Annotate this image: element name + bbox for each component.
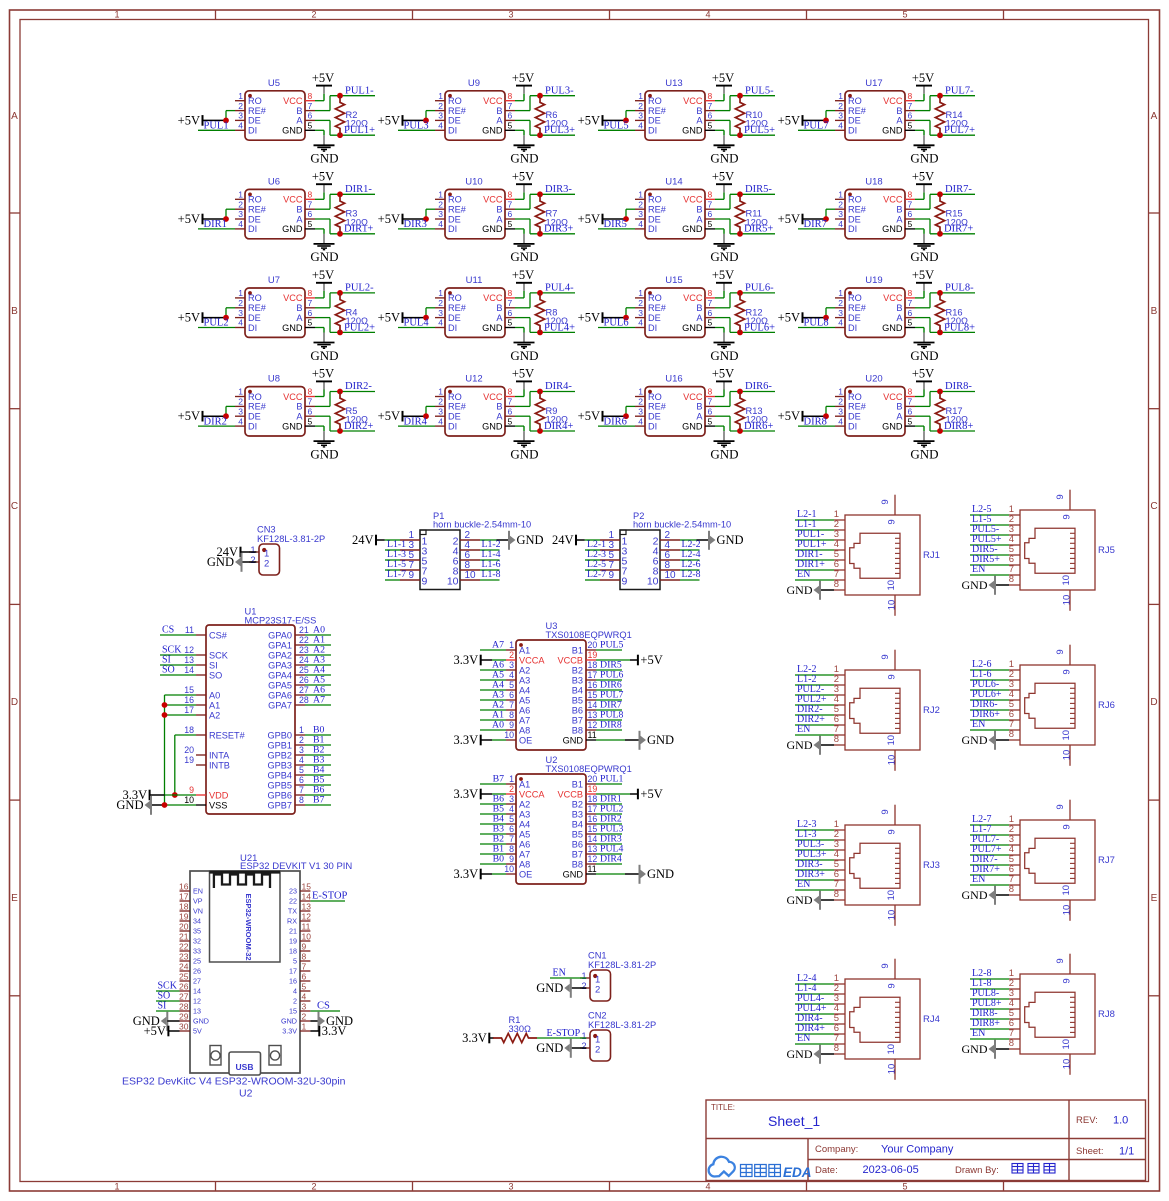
wire net L1-1 (795, 529, 834, 531)
svg-text:RE#: RE# (448, 402, 467, 412)
U9 pin 8 VCC (505, 100, 515, 102)
svg-text:10: 10 (886, 890, 897, 901)
wire net B2 to A6 (480, 843, 506, 845)
svg-text:RO: RO (648, 96, 662, 106)
RJ8 pin 6 (1009, 1028, 1020, 1030)
U1 pin 9 VDD (196, 794, 206, 796)
wire U11 pin A to PUL4+ (515, 317, 530, 319)
svg-text:120Ω: 120Ω (346, 119, 369, 129)
svg-text:SO: SO (209, 670, 222, 680)
ground flag at U21 pin 29 (166, 1012, 168, 1031)
U12 pin 1 RO (435, 396, 445, 398)
svg-text:6: 6 (299, 775, 304, 785)
resistor R16 120 ohm termination (935, 293, 944, 333)
svg-text:120Ω: 120Ω (746, 415, 769, 425)
svg-text:VCC: VCC (683, 293, 703, 303)
svg-text:RJ2: RJ2 (923, 705, 940, 716)
svg-text:10: 10 (886, 580, 897, 591)
junction PUL5- at resistor top (737, 93, 743, 99)
svg-text:4: 4 (302, 992, 307, 1002)
svg-text:B: B (696, 303, 702, 313)
svg-text:PUL3-: PUL3- (545, 85, 574, 96)
U11 pin 8 VCC (505, 297, 515, 299)
svg-text:+5V: +5V (178, 113, 200, 127)
wire U2 GND (596, 873, 625, 875)
svg-text:+5V: +5V (578, 212, 600, 226)
wire net L2-8 (970, 978, 1009, 980)
svg-text:17: 17 (289, 967, 297, 976)
wire U18 VCC to +5V (915, 198, 924, 200)
RJ1 pin 9 shield top (894, 495, 896, 515)
junction +5V/RE#/DE of U6 (223, 216, 229, 222)
svg-text:1: 1 (838, 387, 843, 397)
RJ2 pin 8 (834, 744, 845, 746)
wire U7 pin A to PUL2+ (315, 317, 330, 319)
svg-text:3.3V: 3.3V (462, 1031, 487, 1045)
wire U12 pin B to DIR4- (515, 405, 530, 407)
U5 pin 4 DI (235, 129, 245, 131)
wire net DIR5- (970, 554, 1009, 556)
wire net L2-2 (795, 674, 834, 676)
U9 pin 3 DE (435, 119, 445, 121)
svg-text:7: 7 (708, 298, 713, 308)
svg-text:9: 9 (887, 829, 898, 834)
svg-text:12: 12 (588, 854, 598, 864)
CN2 pin 2 (580, 1047, 590, 1049)
RJ5 pin 10 shield bottom (1069, 590, 1071, 611)
junction +5V/RE#/DE of U13 (623, 118, 629, 124)
svg-text:9: 9 (880, 809, 891, 814)
junction A2 (162, 712, 168, 718)
wire net CS from U21 (310, 1010, 340, 1012)
svg-text:DI: DI (648, 224, 657, 234)
svg-text:B6: B6 (572, 839, 583, 849)
U1 pin 24 GPA3 (295, 664, 305, 666)
junction PUL3+ at resistor bottom (537, 132, 543, 138)
svg-text:A6: A6 (519, 839, 530, 849)
svg-text:EN: EN (972, 564, 985, 575)
svg-text:4: 4 (238, 416, 243, 426)
wire net B7 to A1 (480, 783, 506, 785)
U11 pin 4 DI (435, 327, 445, 329)
svg-text:RO: RO (448, 392, 462, 402)
wire net DIR7 to B6 (596, 709, 622, 711)
U21 pin 15 23 (300, 890, 310, 892)
svg-text:DE: DE (648, 116, 661, 126)
svg-text:5: 5 (708, 219, 713, 229)
svg-text:U18: U18 (865, 176, 882, 187)
svg-text:U2: U2 (239, 1088, 253, 1100)
power +5V left of U19 (802, 312, 804, 323)
U2 pin 1 A1 (506, 783, 516, 785)
wire RJ8 pin 8 to GND (996, 1048, 1009, 1050)
junction A1 (162, 702, 168, 708)
U13 pin 3 DE (635, 119, 645, 121)
RJ6 pin 4 (1009, 699, 1020, 701)
svg-text:15: 15 (302, 882, 312, 892)
U10 pin 7 B (505, 208, 515, 210)
svg-text:120Ω: 120Ω (946, 415, 969, 425)
U12 pin 8 VCC (505, 396, 515, 398)
wire U14 pin B to DIR5- (715, 208, 730, 210)
U2 pin 14 B6 (586, 843, 596, 845)
svg-text:3: 3 (299, 745, 304, 755)
ground flag at RJ7 pin 8 (994, 886, 996, 905)
U2 pin 15 B5 (586, 833, 596, 835)
power +5V left of U14 (602, 214, 604, 225)
svg-text:KF128L-3.81-2P: KF128L-3.81-2P (588, 960, 656, 970)
RJ6 pin 10 shield bottom (1069, 745, 1071, 766)
svg-text:120Ω: 120Ω (546, 316, 569, 326)
junction DIR7+ at resistor bottom (937, 231, 943, 237)
svg-text:+5V: +5V (712, 169, 734, 183)
U18 pin 5 GND (905, 228, 915, 230)
svg-text:+5V: +5V (712, 71, 734, 85)
svg-text:B2: B2 (572, 799, 583, 809)
wire U8 GND pin (315, 425, 324, 427)
RJ7 jack outline (1025, 838, 1075, 883)
wire U19 pin B to PUL8- (915, 307, 930, 309)
svg-text:17: 17 (588, 670, 598, 680)
U21 pin 27 12 (180, 1000, 191, 1002)
svg-text:RJ3: RJ3 (923, 860, 940, 871)
svg-text:B: B (696, 402, 702, 412)
wire net PUL8- (970, 998, 1009, 1000)
svg-text:DE: DE (448, 116, 461, 126)
svg-text:MCP23S17-E/SS: MCP23S17-E/SS (245, 616, 317, 626)
wire net B6 to A2 (480, 803, 506, 805)
svg-text:22: 22 (289, 897, 297, 906)
power +5V above U6 (323, 192, 325, 199)
wire +5V to U15 DE (603, 317, 627, 319)
U16 pin 4 DI (635, 425, 645, 427)
U20 pin 5 GND (905, 425, 915, 427)
svg-text:B1: B1 (572, 645, 583, 655)
wire net L1-4 (795, 993, 834, 995)
U3 pin 3 A2 (506, 669, 516, 671)
svg-text:DE: DE (448, 412, 461, 422)
svg-text:9: 9 (887, 519, 898, 524)
svg-text:5: 5 (708, 318, 713, 328)
RJ6 pin 3 (1009, 689, 1020, 691)
U2 pin 11 GND (586, 873, 596, 875)
RJ3 pin 6 (834, 879, 845, 881)
svg-text:DE: DE (248, 313, 261, 323)
svg-text:DIR8: DIR8 (804, 416, 827, 427)
U9 pin 7 B (505, 110, 515, 112)
svg-text:GND: GND (282, 126, 303, 136)
level shifter U3 TXS0108EQPWRQ1 (516, 640, 586, 750)
junction +5V/RE#/DE of U10 (423, 216, 429, 222)
U2 pin 8 A7 (506, 853, 516, 855)
RJ7 pin 2 (1009, 834, 1020, 836)
svg-text:U12: U12 (465, 374, 482, 385)
svg-text:3: 3 (302, 1002, 307, 1012)
ground flag at RJ2 pin 8 (819, 736, 821, 755)
U3 pin 19 VCCB (586, 659, 596, 661)
svg-text:2: 2 (638, 199, 643, 209)
junction RESET/VDD (172, 792, 178, 798)
RJ45 connector RJ5 (1020, 510, 1095, 590)
wire net EN (795, 1043, 834, 1045)
svg-text:+5V: +5V (640, 653, 662, 667)
RJ2 jack outline (850, 688, 900, 733)
svg-text:DIR6: DIR6 (604, 416, 627, 427)
ESP32 antenna (210, 871, 281, 874)
U3 pin 20 B1 (586, 649, 596, 651)
svg-text:3: 3 (638, 111, 643, 121)
svg-text:5: 5 (908, 318, 913, 328)
power +5V above U11 (523, 291, 525, 298)
svg-text:4: 4 (838, 121, 843, 131)
svg-text:RE#: RE# (648, 402, 667, 412)
U21 pin 16 EN (180, 890, 191, 892)
wire U10 pin B to DIR3- (515, 208, 530, 210)
svg-text:B3: B3 (572, 809, 583, 819)
U5 pin 3 DE (235, 119, 245, 121)
svg-text:U13: U13 (665, 78, 682, 89)
U2 pin 3 A2 (506, 803, 516, 805)
svg-text:8: 8 (508, 288, 513, 298)
svg-text:24V: 24V (352, 533, 374, 547)
svg-text:GND: GND (910, 249, 938, 264)
RJ2 pin 7 (834, 734, 845, 736)
svg-text:A: A (896, 313, 903, 323)
P1 pin 2 (460, 539, 480, 541)
U7 pin 1 RO (235, 297, 245, 299)
U13 pin 4 DI (635, 129, 645, 131)
svg-text:DI: DI (848, 421, 857, 431)
svg-text:RJ1: RJ1 (923, 550, 940, 561)
junction +5V/RE#/DE of U15 (623, 315, 629, 321)
svg-text:120Ω: 120Ω (746, 316, 769, 326)
junction DIR6+ at resistor bottom (737, 428, 743, 434)
ground below U18 (923, 229, 925, 234)
RJ6 pin 2 (1009, 679, 1020, 681)
RJ7 pin 6 (1009, 874, 1020, 876)
svg-text:PUL2: PUL2 (204, 318, 229, 329)
svg-text:330Ω: 330Ω (509, 1024, 532, 1034)
U6 pin 5 GND (305, 228, 315, 230)
junction PUL4- at resistor top (537, 290, 543, 296)
U14 pin 1 RO (635, 198, 645, 200)
U3 pin 5 A4 (506, 689, 516, 691)
P1 pin 4 (460, 549, 480, 551)
svg-text:B: B (896, 303, 902, 313)
svg-text:2: 2 (438, 298, 443, 308)
RJ8 pin 7 (1009, 1038, 1020, 1040)
junction DIR5+ at resistor bottom (737, 231, 743, 237)
wire net PUL7 to U17 DI (798, 129, 835, 131)
wire U17 VCC to +5V (915, 100, 924, 102)
U18 pin 1 RO (835, 198, 845, 200)
svg-text:U6: U6 (268, 176, 280, 187)
svg-text:VCC: VCC (483, 96, 503, 106)
svg-text:GND: GND (207, 555, 234, 569)
svg-text:DIR4-: DIR4- (545, 381, 572, 392)
svg-text:20: 20 (588, 774, 598, 784)
svg-text:18: 18 (289, 947, 297, 956)
power +5V left of U16 (602, 411, 604, 422)
wire net L2-2 (680, 549, 700, 551)
svg-text:9: 9 (1055, 804, 1066, 809)
U15 pin 1 RO (635, 297, 645, 299)
svg-text:B: B (896, 205, 902, 215)
RS485 transceiver U9 (445, 91, 505, 140)
RJ7 pin 4 (1009, 854, 1020, 856)
wire +5V to U11 DE (403, 317, 427, 319)
wire RJ2 pin 8 to GND (821, 744, 834, 746)
U8 pin 8 VCC (305, 396, 315, 398)
svg-text:19: 19 (179, 912, 189, 922)
power +5V left of U12 (402, 411, 404, 422)
svg-text:DE: DE (648, 214, 661, 224)
svg-text:L1-8: L1-8 (482, 569, 501, 580)
svg-text:4: 4 (705, 1182, 710, 1192)
svg-text:horn buckle-2.54mm-10: horn buckle-2.54mm-10 (433, 520, 531, 530)
svg-text:25: 25 (179, 972, 189, 982)
svg-text:A: A (896, 116, 903, 126)
U17 pin 6 A (905, 119, 915, 121)
svg-text:+5V: +5V (178, 212, 200, 226)
svg-text:TXS0108EQPWRQ1: TXS0108EQPWRQ1 (546, 630, 632, 640)
wire net A0 (305, 634, 331, 636)
svg-text:VCC: VCC (283, 392, 303, 402)
svg-text:+5V: +5V (178, 311, 200, 325)
U5 pin 2 RE# (235, 110, 245, 112)
svg-text:VCC: VCC (683, 96, 703, 106)
svg-text:B0: B0 (493, 854, 505, 865)
wire net L1-1 (385, 549, 400, 551)
power +5V above U9 (523, 94, 525, 101)
U18 pin 7 B (905, 208, 915, 210)
resistor R3 120 ohm termination (335, 194, 344, 234)
U7 pin 4 DI (235, 327, 245, 329)
wire net DIR1+ (795, 569, 834, 571)
P1 pin 5 (400, 559, 420, 561)
svg-text:A: A (896, 412, 903, 422)
wire net DIR7 to U18 DI (798, 228, 835, 230)
U1 pin 15 A0 (196, 694, 206, 696)
U17 pin 1 RO (835, 100, 845, 102)
svg-text:8: 8 (908, 91, 913, 101)
svg-text:3: 3 (438, 308, 443, 318)
JLCEDA logo text (741, 1165, 753, 1177)
wire +5V to U5 DE (203, 119, 227, 121)
ground flag at RJ8 pin 8 (994, 1040, 996, 1059)
svg-text:L1-7: L1-7 (387, 569, 406, 580)
RJ4 pin 5 (834, 1023, 845, 1025)
junction PUL2+ at resistor bottom (337, 330, 343, 336)
U2 pin 10 OE (506, 873, 516, 875)
svg-text:GND: GND (517, 533, 544, 547)
U2 pin 6 A5 (506, 833, 516, 835)
svg-text:GND: GND (536, 981, 563, 995)
wire net B4 (305, 774, 331, 776)
svg-text:A6: A6 (519, 705, 530, 715)
resistor R7 120 ohm termination (535, 194, 544, 234)
svg-text:A1: A1 (209, 700, 220, 710)
U8 pin 5 GND (305, 425, 315, 427)
svg-text:Sheet_1: Sheet_1 (768, 1113, 820, 1129)
svg-text:4: 4 (438, 416, 443, 426)
ground below U16 (723, 426, 725, 431)
svg-text:A: A (896, 214, 903, 224)
wire net L2-4 (795, 983, 834, 985)
svg-text:A: A (496, 412, 503, 422)
U3 pin 17 B3 (586, 679, 596, 681)
U1 pin 7 GPB6 (295, 794, 305, 796)
U17 pin 5 GND (905, 129, 915, 131)
wire net B3 to A5 (480, 833, 506, 835)
RJ8 pin 4 (1009, 1008, 1020, 1010)
power +5V left of U9 (402, 115, 404, 126)
wire U18 pin B to DIR7- (915, 208, 930, 210)
svg-text:DI: DI (848, 224, 857, 234)
svg-text:32: 32 (193, 937, 201, 946)
RJ45 connector RJ4 (845, 979, 920, 1059)
svg-text:2: 2 (299, 735, 304, 745)
svg-text:34: 34 (193, 917, 201, 926)
wire U5 GND pin (315, 129, 324, 131)
svg-text:3: 3 (508, 1182, 513, 1192)
svg-text:DI: DI (648, 126, 657, 136)
svg-text:DIR7: DIR7 (804, 219, 827, 230)
wire net L2-7 (970, 824, 1009, 826)
U1 pin 25 GPA4 (295, 674, 305, 676)
U8 pin 2 RE# (235, 405, 245, 407)
RJ2 pin 3 (834, 694, 845, 696)
svg-text:27: 27 (193, 977, 201, 986)
U1 pin 22 GPA1 (295, 644, 305, 646)
svg-text:8: 8 (308, 190, 313, 200)
svg-text:5: 5 (509, 680, 514, 690)
svg-text:A2: A2 (519, 799, 530, 809)
svg-text:15: 15 (184, 685, 194, 695)
power +5V left of U13 (602, 115, 604, 126)
svg-text:EN: EN (797, 569, 810, 580)
svg-text:CS: CS (317, 1001, 330, 1012)
svg-text:RO: RO (248, 195, 262, 205)
svg-text:+5V: +5V (778, 113, 800, 127)
wire net L2-3 (585, 559, 600, 561)
svg-text:120Ω: 120Ω (946, 217, 969, 227)
wire net DIR3 to B6 (596, 843, 622, 845)
wire RJ4 pin 8 to GND (821, 1053, 834, 1055)
svg-text:5: 5 (908, 121, 913, 131)
title block frame (706, 1100, 1146, 1181)
resistor R10 120 ohm termination (735, 96, 744, 136)
svg-text:+5V: +5V (578, 409, 600, 423)
RJ1 pin 5 (834, 559, 845, 561)
svg-text:PUL1: PUL1 (600, 774, 624, 785)
svg-text:VCC: VCC (483, 293, 503, 303)
U21 pin 13 TX (300, 910, 310, 912)
svg-text:11: 11 (588, 864, 597, 874)
U11 pin 6 A (505, 317, 515, 319)
svg-text:13: 13 (302, 902, 312, 912)
svg-text:GPA2: GPA2 (268, 650, 292, 660)
U3 pin 13 B7 (586, 719, 596, 721)
svg-text:RO: RO (448, 195, 462, 205)
connector CN3 KF128L-3.81-2P (259, 544, 280, 575)
wire net DIR2 to B4 (596, 823, 622, 825)
wire net PUL7+ (970, 854, 1009, 856)
svg-text:B: B (296, 402, 302, 412)
junction +5V/RE#/DE of U17 (823, 118, 829, 124)
wire net PUL2 to B3 (596, 813, 622, 815)
svg-text:PUL6-: PUL6- (745, 283, 774, 294)
